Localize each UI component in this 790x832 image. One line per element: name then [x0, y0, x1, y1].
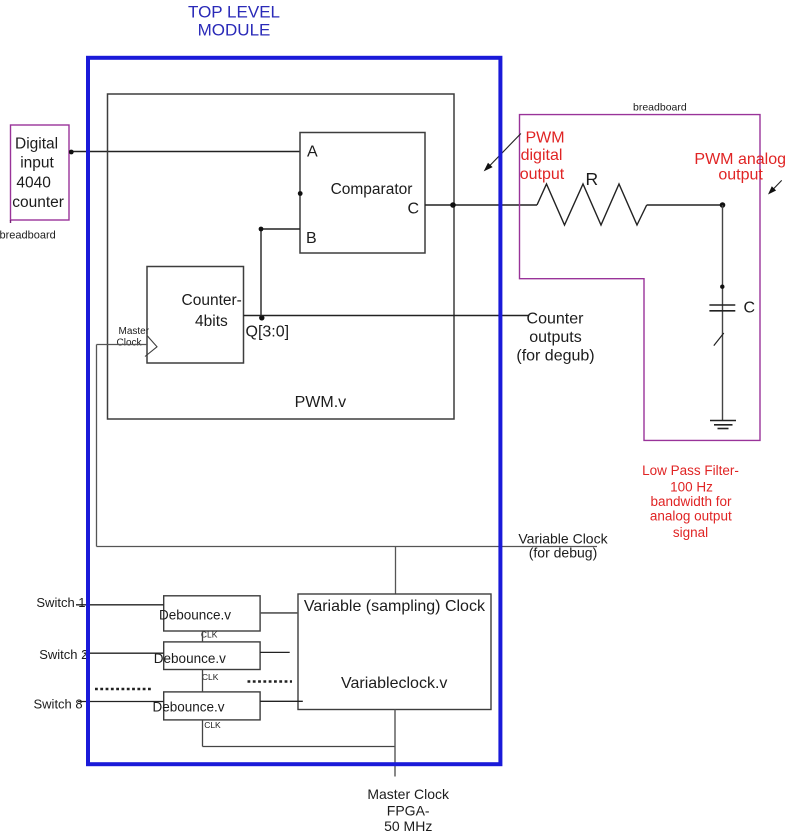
wire node to capacitor [722, 205, 724, 421]
breadboard L-shape outline (low pass filter) [520, 115, 761, 441]
label Low Pass Filter red [642, 463, 739, 540]
wire Q[3:0] bus [244, 315, 529, 317]
label TOP LEVEL MODULE [188, 3, 280, 40]
wire B input [261, 229, 300, 316]
svg-text:CLK: CLK [201, 629, 218, 639]
svg-text:PWM.v: PWM.v [295, 394, 347, 411]
dotted ellipsis left [95, 688, 152, 691]
svg-text:Switch 1: Switch 1 [36, 595, 85, 610]
dotted ellipsis right [248, 680, 293, 683]
svg-text:C: C [407, 201, 419, 218]
label Variable Clock (for debug) [518, 531, 608, 561]
junction dot on comparator left edge [298, 191, 303, 196]
svg-text:output: output [718, 167, 763, 184]
svg-text:Switch 2: Switch 2 [39, 647, 88, 662]
svg-text:(for debug): (for debug) [529, 545, 597, 561]
resistor R [537, 184, 647, 225]
svg-text:(for degub): (for degub) [516, 348, 594, 365]
wire CLK chain verticals [202, 631, 204, 747]
svg-text:MODULE: MODULE [198, 21, 271, 40]
svg-text:A: A [307, 144, 318, 161]
debounce 2 box [154, 642, 260, 670]
svg-text:FPGA-: FPGA- [387, 803, 430, 819]
arrow PWM analog output [768, 180, 782, 194]
wire debounce2 output [260, 651, 290, 653]
svg-text:Debounce.v: Debounce.v [159, 608, 231, 623]
ground symbol [710, 421, 736, 429]
wire resistor to cap node [647, 204, 723, 206]
svg-text:100 Hz: 100 Hz [670, 480, 713, 495]
svg-text:R: R [585, 169, 598, 189]
top level module blue border [88, 58, 500, 764]
wire debounce3 output [260, 700, 303, 702]
junction dot at digital input output [69, 150, 74, 155]
junction dot on Q bus [259, 315, 264, 320]
label PWM analog output [694, 151, 786, 184]
svg-text:breadboard: breadboard [633, 102, 687, 114]
wire switch 2 [84, 652, 164, 654]
svg-text:outputs: outputs [529, 329, 581, 346]
counter 4bits box [147, 267, 244, 364]
module Variableclock.v box [298, 594, 491, 710]
svg-text:analog output: analog output [650, 508, 732, 523]
wire switch 8 [78, 701, 164, 703]
label Master Clock FPGA 50 MHz [367, 786, 450, 832]
clock wedge on counter [145, 336, 157, 357]
svg-text:Switch 8: Switch 8 [34, 697, 83, 712]
svg-text:counter: counter [12, 194, 64, 211]
capacitor C plates [709, 305, 735, 311]
wire variableclock output up [395, 547, 397, 595]
junction dot on cap wire [720, 285, 724, 289]
wire switch 1 [76, 604, 164, 606]
svg-text:PWM analog: PWM analog [694, 151, 786, 168]
junction dot analog output node [720, 202, 726, 208]
svg-text:TOP LEVEL: TOP LEVEL [188, 3, 280, 22]
svg-text:4bits: 4bits [195, 313, 228, 330]
junction dot B corner [259, 227, 264, 232]
svg-text:bandwidth for: bandwidth for [650, 494, 732, 509]
svg-text:Master Clock: Master Clock [367, 786, 450, 802]
svg-text:Low Pass Filter-: Low Pass Filter- [642, 463, 739, 478]
svg-text:50 MHz: 50 MHz [384, 818, 432, 832]
arrow PWM digital output [484, 134, 521, 172]
svg-text:input: input [20, 154, 54, 171]
polarity slash on cap wire [714, 333, 724, 346]
label Master Clock (counter clock input) [117, 326, 150, 349]
wire master clock vertical [394, 710, 396, 777]
debounce 1 box [159, 596, 260, 631]
svg-text:Variable (sampling) Clock: Variable (sampling) Clock [304, 598, 486, 615]
wire A input [69, 151, 300, 153]
wire CLK chain horizontal to master clock [203, 746, 396, 748]
svg-text:Debounce.v: Debounce.v [154, 651, 226, 666]
svg-text:Comparator: Comparator [331, 181, 413, 198]
svg-text:PWM: PWM [525, 130, 564, 147]
svg-text:Counter-: Counter- [182, 292, 242, 309]
wire master/variable clock to counter [97, 345, 148, 547]
wire variable clock (debug) horizontal [97, 546, 598, 548]
comparator U1 box [300, 133, 425, 254]
wire debounce1 to variableclock [260, 612, 298, 614]
svg-text:Counter: Counter [527, 311, 585, 328]
svg-text:4040: 4040 [16, 174, 51, 191]
svg-text:CLK: CLK [202, 672, 219, 682]
svg-text:C: C [744, 300, 756, 317]
svg-text:output: output [520, 166, 565, 183]
svg-text:Master: Master [119, 326, 150, 337]
svg-text:Digital: Digital [15, 136, 58, 153]
svg-text:CLK: CLK [204, 720, 221, 730]
label Counter outputs (for degub) [516, 311, 594, 365]
svg-text:Clock: Clock [117, 338, 143, 349]
debounce 3 box [153, 692, 261, 720]
svg-text:signal: signal [673, 525, 708, 540]
box Digital input 4040 counter [11, 125, 70, 223]
svg-text:Q[3:0]: Q[3:0] [246, 324, 290, 341]
svg-text:digital: digital [521, 147, 563, 164]
junction dot C at PWM box edge [450, 202, 456, 208]
svg-text:B: B [306, 230, 317, 247]
module PWM.v box [108, 94, 455, 419]
wire C output [425, 204, 537, 206]
label PWM digital output [520, 130, 565, 184]
svg-text:breadboard: breadboard [0, 229, 56, 241]
svg-text:Variableclock.v: Variableclock.v [341, 675, 447, 692]
